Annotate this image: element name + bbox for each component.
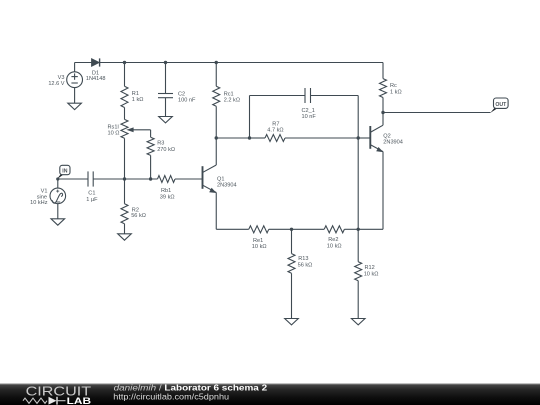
wire V1 to ground <box>57 204 59 219</box>
svg-text:39 kΩ: 39 kΩ <box>160 194 175 200</box>
capacitor C2_1 <box>249 96 251 139</box>
wire Re1 to node <box>269 228 324 230</box>
svg-text:R12: R12 <box>365 265 375 271</box>
wire node to R7/C2_1 <box>216 137 249 139</box>
wire top rail <box>75 62 92 64</box>
node top rail / C2 <box>164 61 167 64</box>
wire Q2 collector up <box>382 113 384 126</box>
svg-text:C2: C2 <box>178 92 185 98</box>
wire node to Q2 base <box>358 137 370 139</box>
svg-text:LAB: LAB <box>67 396 91 405</box>
svg-text:2.2 kΩ: 2.2 kΩ <box>224 98 240 104</box>
wire to OUT <box>383 112 491 114</box>
svg-text:10 kΩ: 10 kΩ <box>364 271 379 277</box>
wiper arrow of Rs1l <box>133 129 151 131</box>
svg-text:Re2: Re2 <box>328 237 338 243</box>
node top rail / Rc1 <box>215 61 218 64</box>
node main/R3 <box>149 177 152 180</box>
resistor Rc <box>382 63 384 79</box>
svg-text:Q1: Q1 <box>217 176 224 182</box>
node emitter row / R12 / Q2 emitter <box>357 228 360 231</box>
port IN <box>57 175 64 180</box>
node Rc1/Q1 collector tap <box>215 136 218 139</box>
ground for R2 <box>118 234 132 240</box>
resistor R2 <box>124 179 126 204</box>
resistor R13 <box>291 229 293 253</box>
wire node down to emitter row <box>357 138 359 229</box>
node Rc/Q2 collector/OUT <box>381 111 384 114</box>
svg-text:Rc1: Rc1 <box>224 92 234 98</box>
wire Q1 emitter down <box>215 193 217 230</box>
node emitter row / R13 <box>290 228 293 231</box>
wire IN to C1 <box>57 178 88 180</box>
resistor R12 <box>357 229 359 261</box>
svg-text:1 kΩ: 1 kΩ <box>390 90 402 96</box>
node main/R2 <box>123 177 126 180</box>
svg-text:Rb1: Rb1 <box>161 188 171 194</box>
ground for C2 <box>159 117 173 123</box>
svg-text:R13: R13 <box>298 256 308 262</box>
resistor Re1 <box>249 226 269 233</box>
svg-text:10 Ω: 10 Ω <box>108 131 120 137</box>
resistor R3 <box>150 130 152 137</box>
svg-text:1 µF: 1 µF <box>86 197 98 203</box>
ground for V3 <box>68 103 82 109</box>
svg-text:1N4148: 1N4148 <box>86 76 106 82</box>
svg-text:http://circuitlab.com/c5dpnhu: http://circuitlab.com/c5dpnhu <box>113 391 229 401</box>
port OUT <box>490 108 497 113</box>
node top rail / R1 <box>123 61 126 64</box>
svg-text:R3: R3 <box>157 141 164 147</box>
svg-text:10 kΩ: 10 kΩ <box>327 244 342 250</box>
resistor R7 <box>250 137 266 139</box>
ground for R13 <box>285 319 299 325</box>
rheostat Rs1l <box>121 119 128 138</box>
svg-text:56 kΩ: 56 kΩ <box>131 213 146 219</box>
transistor Q2 2N3904 <box>369 126 371 149</box>
svg-text:2N3904: 2N3904 <box>217 183 237 189</box>
svg-text:100 nF: 100 nF <box>178 98 196 104</box>
wire emitter row <box>216 228 249 230</box>
footer bar <box>0 383 540 384</box>
resistor R1 <box>124 63 126 87</box>
svg-text:10 nF: 10 nF <box>302 114 317 120</box>
svg-text:10 kHz: 10 kHz <box>30 200 48 206</box>
svg-text:Q2: Q2 <box>383 133 390 139</box>
wire node to Q2 emitter corner <box>358 228 383 230</box>
svg-text:56 kΩ: 56 kΩ <box>298 263 313 269</box>
node R7/C2_1 right / Q2 base <box>357 136 360 139</box>
voltage source V3 <box>74 63 76 72</box>
svg-text:10 kΩ: 10 kΩ <box>252 244 267 250</box>
svg-text:2N3904: 2N3904 <box>383 140 403 146</box>
svg-text:C1: C1 <box>88 191 95 197</box>
wire Re2 to node <box>344 228 358 230</box>
svg-text:4.7 kΩ: 4.7 kΩ <box>267 127 283 133</box>
transistor Q1 2N3904 <box>202 166 204 189</box>
capacitor C2 <box>165 63 167 94</box>
resistor Rb1 <box>158 176 176 183</box>
svg-text:12.6 V: 12.6 V <box>48 81 64 87</box>
resistor Rc1 <box>215 63 217 87</box>
voltage source V1 sine <box>56 177 59 180</box>
svg-text:R1: R1 <box>132 91 139 97</box>
svg-text:OUT: OUT <box>495 102 507 108</box>
svg-text:IN: IN <box>62 169 67 175</box>
wire Rc1 to Q1 collector <box>215 106 217 165</box>
wire C1 to node <box>93 178 157 180</box>
diode D1 1N4148 <box>92 59 100 67</box>
ground for V1 <box>51 219 65 225</box>
svg-text:270 kΩ: 270 kΩ <box>157 147 175 153</box>
svg-text:Rs1l: Rs1l <box>108 124 119 130</box>
svg-text:1 kΩ: 1 kΩ <box>132 97 144 103</box>
ground for R12 <box>351 319 365 325</box>
svg-text:Rc: Rc <box>390 83 397 89</box>
wire Q2 emitter down <box>382 152 384 230</box>
capacitor C1 <box>87 171 89 186</box>
resistor Re2 <box>324 226 344 233</box>
